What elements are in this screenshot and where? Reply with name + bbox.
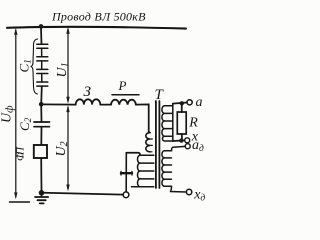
svg-text:ФП: ФП	[15, 146, 27, 161]
svg-text:R: R	[188, 115, 198, 130]
svg-text:Uф: Uф	[0, 105, 16, 123]
node: capacitor divider tap junction	[39, 102, 44, 107]
transformer auxiliary winding ад-хд	[162, 146, 186, 192]
dimension U1	[66, 27, 69, 104]
svg-text:а: а	[196, 95, 203, 110]
terminal хд	[186, 189, 191, 194]
node: line tap junction	[39, 24, 44, 29]
transformer primary winding (loop turns)	[132, 133, 154, 187]
resistor R	[181, 104, 183, 112]
wire: from line junction down to C1	[40, 28, 43, 44]
svg-text:хд: хд	[193, 188, 205, 204]
svg-text:U2: U2	[54, 141, 70, 156]
svg-text:U1: U1	[55, 62, 71, 77]
svg-text:C1: C1	[17, 59, 34, 72]
wire: ground run to primary terminal	[44, 193, 123, 195]
brace for C1	[31, 39, 38, 94]
svg-text:Провод ВЛ 500кВ: Провод ВЛ 500кВ	[51, 9, 146, 23]
wire: C2 to coupling filter	[40, 127, 42, 145]
breakdown-fuse / switch on tap branch	[125, 153, 127, 192]
ground	[41, 193, 43, 197]
svg-text:C2: C2	[17, 117, 34, 131]
inductor P (compensating reactor)	[111, 100, 136, 105]
terminal: primary grounding circle	[123, 192, 129, 198]
wire: winding bottom to terminal x	[173, 139, 185, 142]
node: ground junction	[39, 190, 45, 196]
node: junction at R top	[180, 101, 184, 105]
wire: filter to ground junction	[40, 158, 42, 192]
wire: overhead line conductor (top horizontal)	[7, 27, 186, 29]
node: junction at R bottom	[179, 138, 183, 142]
wire: winding top to terminal a	[173, 103, 187, 104]
wire: primary tap branch	[126, 153, 140, 156]
transformer core	[155, 101, 157, 188]
inductor З (HF line trap)	[76, 99, 101, 104]
svg-text:З: З	[84, 84, 92, 100]
wire: P to transformer primary (corner)	[136, 104, 150, 132]
terminal ад	[185, 144, 190, 149]
capacitor C2	[40, 104, 42, 122]
dimension U2	[66, 105, 69, 191]
wire: between З and P	[100, 104, 111, 106]
capacitor C1 (stack of series capacitor units)	[37, 44, 48, 86]
svg-text:ад: ад	[192, 138, 204, 154]
wire: C1 bottom to mid junction	[40, 86, 43, 104]
terminal a	[187, 100, 192, 105]
svg-text:Р: Р	[118, 78, 127, 93]
transformer secondary winding a-x	[162, 104, 173, 141]
terminal x	[185, 138, 190, 143]
wire: divider tap to HF line trap	[43, 103, 76, 105]
dimension Uф: vertical arrow line	[10, 28, 30, 202]
box ФП (line coupling filter)	[34, 145, 47, 158]
